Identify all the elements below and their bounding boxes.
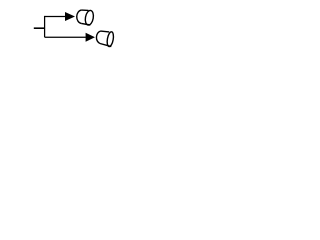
arrowhead bottom <box>86 33 95 42</box>
drum top: left rim arc <box>77 10 82 23</box>
wire bottom branch <box>45 36 86 38</box>
drum top (group) <box>77 10 95 26</box>
drum bottom: top silhouette line <box>101 30 110 33</box>
drum bottom: bottom silhouette line <box>100 44 111 47</box>
drum bottom: left rim arc <box>96 31 100 43</box>
drum top: top silhouette line <box>81 9 88 11</box>
drum top: bottom silhouette line <box>81 23 90 25</box>
arrowhead top <box>65 12 75 21</box>
wire input stub <box>34 27 45 29</box>
drum bottom (group) <box>96 31 114 47</box>
drum bottom: right face full ellipse (tilted) <box>106 31 114 47</box>
drum top: right face full ellipse (tilted) <box>84 10 94 26</box>
wire top branch <box>45 16 66 18</box>
wire vertical branch <box>44 16 46 37</box>
